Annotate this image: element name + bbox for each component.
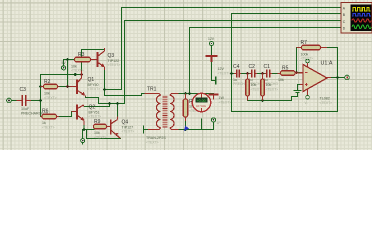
ground terminal right of battery xyxy=(215,77,217,85)
junction node RC tap2 xyxy=(261,72,264,75)
junction node RC bottom xyxy=(261,99,264,102)
resistor R3 xyxy=(71,52,97,73)
wire op-amp plus input to ground xyxy=(298,85,301,91)
terminal input left xyxy=(7,98,12,103)
svg-text:R6: R6 xyxy=(42,109,49,115)
resistor R9 xyxy=(94,119,111,140)
svg-text:C4: C4 xyxy=(233,64,240,70)
junction node secondary rail scope D xyxy=(188,92,191,95)
svg-text:<TEXT>: <TEXT> xyxy=(301,57,314,61)
svg-text:C3: C3 xyxy=(20,87,27,93)
transistor Q4 xyxy=(110,117,134,139)
svg-text:<TEXT>: <TEXT> xyxy=(89,115,102,119)
resistor R5 op-amp input xyxy=(278,66,304,83)
wire TR1 secondary top rail xyxy=(179,93,214,95)
wire battery column xyxy=(212,46,216,81)
svg-text:R3: R3 xyxy=(78,52,85,58)
wire input terminal to C3 xyxy=(12,100,17,102)
terminal op-amp output xyxy=(345,75,350,80)
svg-text:+0.00: +0.00 xyxy=(197,99,206,103)
svg-text:10uF: 10uF xyxy=(21,107,30,111)
wire R6 to Q2 base xyxy=(59,112,72,117)
junction node op-amp output xyxy=(336,76,339,79)
junction node secondary rail R4 top xyxy=(184,92,187,95)
svg-text:<TEXT>: <TEXT> xyxy=(44,96,57,100)
svg-text:<TEXT>: <TEXT> xyxy=(218,72,231,76)
svg-text:1W: 1W xyxy=(219,96,225,100)
capacitor C4 xyxy=(233,64,248,86)
wire RC ladder row xyxy=(232,73,278,75)
wire Q2 collector to output node xyxy=(85,104,110,107)
wire bias node horizontal y74 xyxy=(41,74,82,76)
junction node output x117 xyxy=(116,102,119,105)
junction node RC tap1 xyxy=(246,72,249,75)
junction node Q1 base xyxy=(66,85,69,88)
svg-text:<TEXT>: <TEXT> xyxy=(42,126,55,130)
junction node R2 left xyxy=(39,85,42,88)
junction node R3 left xyxy=(66,58,69,61)
svg-text:10k: 10k xyxy=(94,131,100,135)
wire op-amp output to terminal xyxy=(331,77,345,79)
svg-text:TRAN-2P2S: TRAN-2P2S xyxy=(146,136,166,140)
battery power terminal 12V xyxy=(205,37,230,76)
svg-text:1P: 1P xyxy=(217,121,222,125)
oscilloscope xyxy=(341,3,372,34)
junction node Q1 collector xyxy=(80,73,83,76)
svg-text:TIP127: TIP127 xyxy=(122,125,134,129)
wire Q4 collector riser xyxy=(117,104,119,117)
svg-text:<TEXT>: <TEXT> xyxy=(122,130,135,134)
svg-text:BFY50: BFY50 xyxy=(88,83,99,87)
transistor Q1 xyxy=(70,71,101,97)
wire R3 node down to Q1 base xyxy=(67,60,69,87)
svg-text:<TEXT>: <TEXT> xyxy=(94,136,107,140)
junction node at Q3 emitter xyxy=(103,88,106,91)
svg-text:<TEXT>: <TEXT> xyxy=(108,63,121,67)
pin terminal below voltmeter bar xyxy=(211,118,221,125)
junction node RC input xyxy=(230,72,233,75)
svg-text:TR1: TR1 xyxy=(147,87,157,93)
resistor R7 feedback xyxy=(297,40,328,61)
svg-text:C1: C1 xyxy=(264,64,271,70)
svg-text:TIP122: TIP122 xyxy=(108,59,120,63)
svg-text:U1:A: U1:A xyxy=(321,61,333,67)
svg-text:1k: 1k xyxy=(42,121,46,125)
wire RC shunt bottom rail to ground xyxy=(248,93,298,101)
wire op-amp output to bottom rail loop xyxy=(232,78,338,112)
wire C3 to left bus xyxy=(31,100,41,102)
ground at TR1 primary bottom xyxy=(144,126,149,134)
wire Q3 collector top link xyxy=(82,50,105,71)
resistor R8 vertical shunt xyxy=(261,74,278,101)
wire R2 to Q1 base xyxy=(60,86,70,88)
junction node C3 right xyxy=(39,99,42,102)
svg-text:R5: R5 xyxy=(282,66,289,72)
svg-text:BFY51: BFY51 xyxy=(89,110,100,114)
junction node bias y74 xyxy=(74,73,77,76)
voltmeter AC xyxy=(192,93,210,111)
svg-text:R9: R9 xyxy=(94,119,101,125)
svg-text:5V: 5V xyxy=(62,61,67,65)
wire Q2 emitter node xyxy=(83,125,121,139)
wire Q1 emitter to output node xyxy=(86,97,99,104)
svg-text:12V: 12V xyxy=(208,37,215,41)
wire scope channel A net xyxy=(105,8,342,90)
wire op-amp feedback right leg xyxy=(327,48,338,78)
resistor R1 vertical shunt xyxy=(246,74,263,101)
svg-text:<TEXT>: <TEXT> xyxy=(146,141,159,145)
power terminal 5V near R3 xyxy=(62,61,67,70)
svg-text:TL082: TL082 xyxy=(320,97,330,101)
svg-text:12V: 12V xyxy=(218,67,225,71)
transistor Q2 xyxy=(72,105,102,126)
wire left vertical bus x40 xyxy=(40,75,42,117)
svg-text:10k: 10k xyxy=(266,83,272,87)
svg-text:<TEXT>: <TEXT> xyxy=(266,88,279,92)
transformer TR1 xyxy=(145,87,179,145)
wire scope channel B net / oscillator output vertical xyxy=(232,14,342,112)
svg-text:<TEXT>: <TEXT> xyxy=(88,87,101,91)
wire power terminal to R3 xyxy=(64,60,75,66)
resistor R2 xyxy=(41,79,60,100)
junction node secondary bottom R4 xyxy=(184,128,187,131)
wire scope channel C net xyxy=(99,21,342,104)
wire Q3 emitter to TR1 primary top xyxy=(105,70,145,96)
wire TR1 secondary bottom rail xyxy=(179,119,214,130)
capacitor C3 xyxy=(17,87,48,116)
svg-text:C2: C2 xyxy=(249,64,256,70)
svg-text:<TEXT>: <TEXT> xyxy=(219,101,232,105)
svg-text:V-: V- xyxy=(305,101,308,105)
svg-text:R2: R2 xyxy=(44,79,51,85)
svg-text:10k: 10k xyxy=(251,83,257,87)
capacitor C2 xyxy=(249,64,264,86)
junction node output x109 xyxy=(108,102,111,105)
wire op-amp feedback left leg xyxy=(297,48,301,73)
svg-text:R7: R7 xyxy=(301,40,308,46)
svg-text:10k: 10k xyxy=(44,92,50,96)
terminal at Q2 emitter xyxy=(81,139,85,145)
resistor R6 xyxy=(41,109,60,130)
current probe arrow blue xyxy=(182,125,189,132)
junction node op-amp minus xyxy=(295,71,298,74)
transistor Q3 xyxy=(91,48,121,70)
op-amp U1:A xyxy=(300,59,333,105)
capacitor C1 xyxy=(264,64,279,86)
wire scope channel D net xyxy=(190,28,342,94)
ground below op-amp plus input xyxy=(294,91,302,93)
power terminal bar right of voltmeter xyxy=(209,95,232,105)
junction node Q2 emitter xyxy=(83,128,86,131)
svg-text:10k: 10k xyxy=(278,78,284,82)
svg-text:<TEXT>: <TEXT> xyxy=(320,101,333,105)
svg-text:AC Volts: AC Volts xyxy=(196,104,207,108)
resistor R4 xyxy=(183,94,201,122)
